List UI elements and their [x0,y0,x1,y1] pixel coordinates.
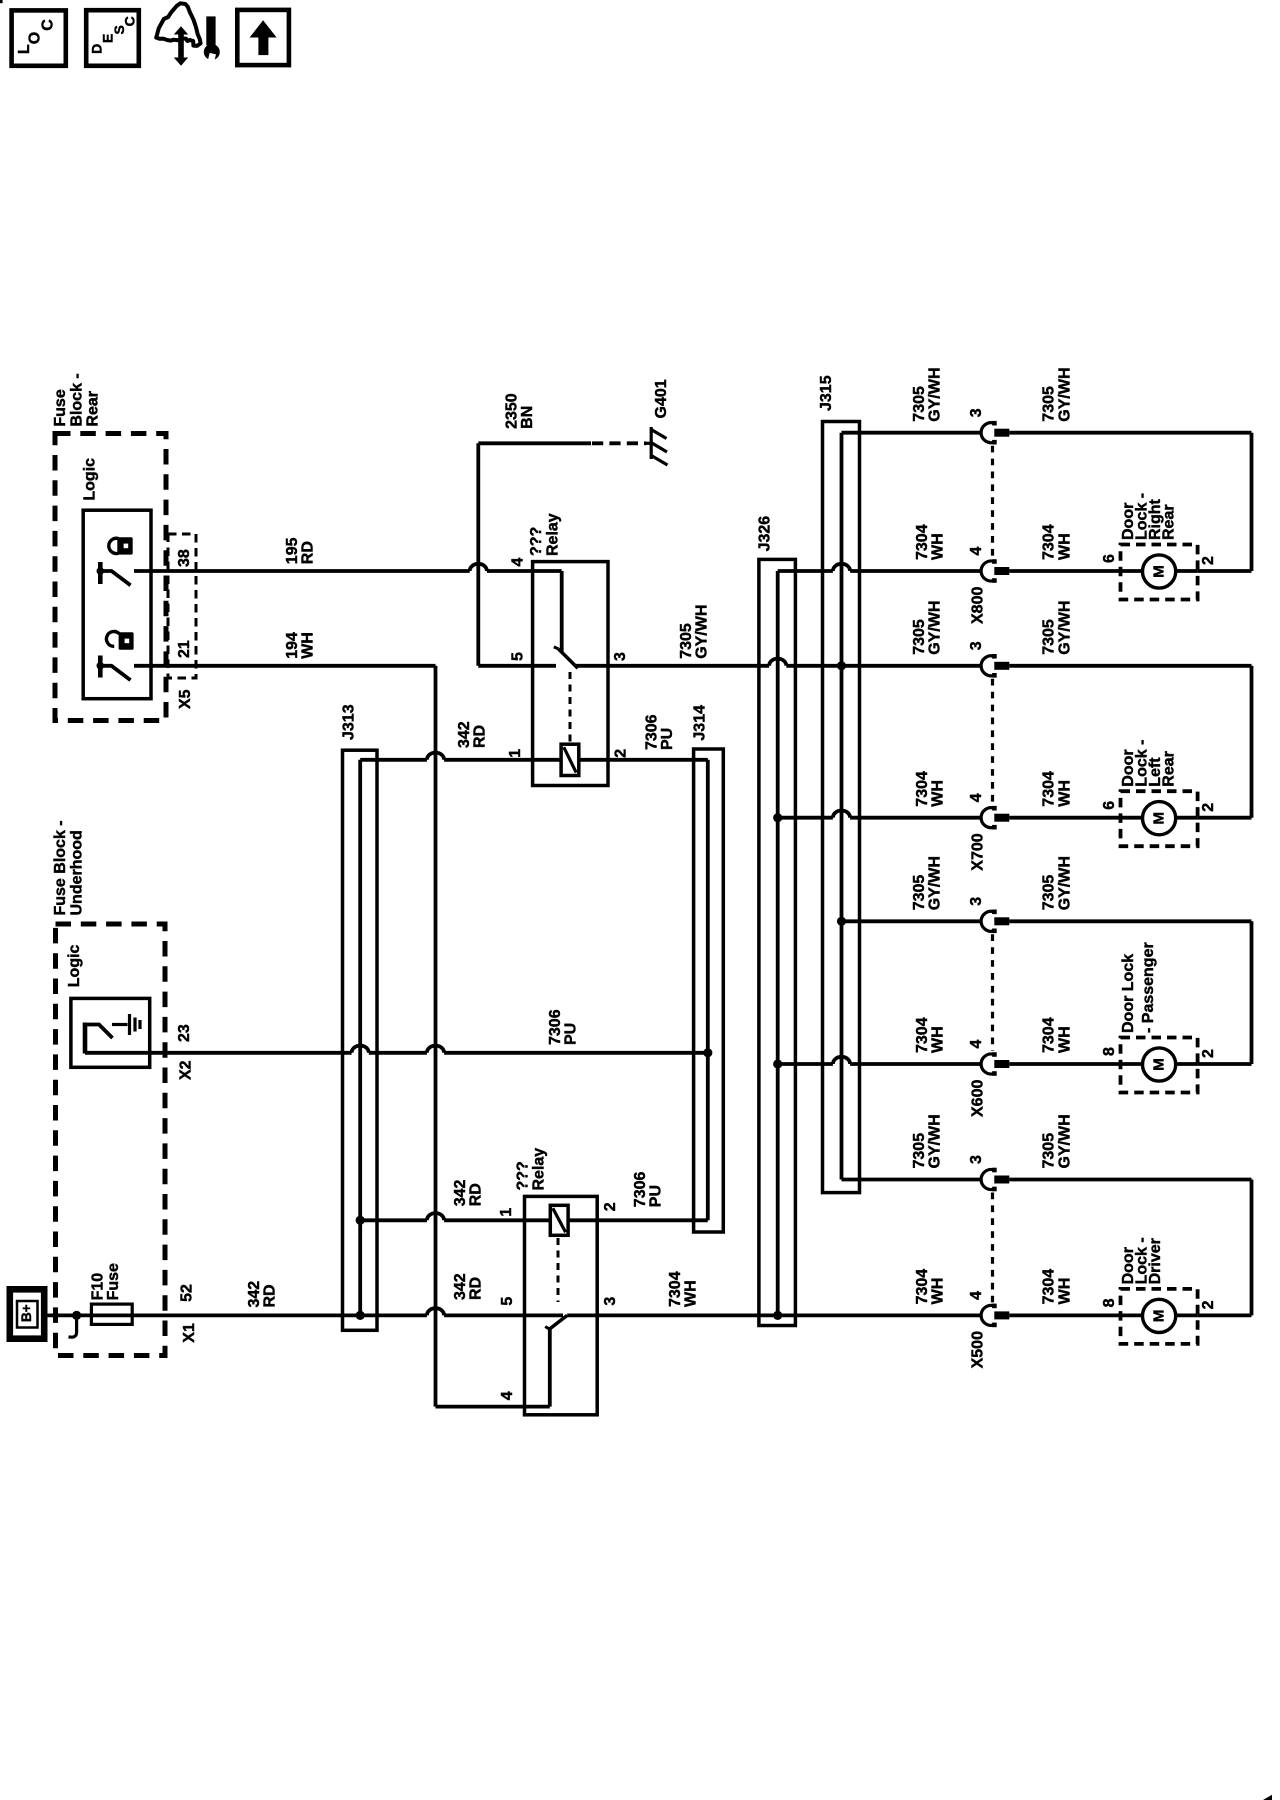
connector J314 [694,749,724,1232]
wire DV G from bus [842,1178,983,1182]
svg-text:PU: PU [563,1023,580,1045]
svg-text:GY/WH: GY/WH [1057,367,1074,421]
svg-text:X700: X700 [970,833,987,870]
svg-text:F10: F10 [90,1273,107,1301]
door lock motor X700 box [1121,791,1198,846]
svg-text:7304: 7304 [914,1017,931,1053]
svg-text:Relay: Relay [545,513,562,556]
wire PS G from bus [842,919,983,923]
svg-text:7304: 7304 [1041,524,1058,560]
wire PS W from bus [778,1062,833,1066]
svg-text:WH: WH [930,533,947,560]
svg-text:GY/WH: GY/WH [694,605,711,659]
unlock switch contact stub [134,664,151,668]
svg-text:RD: RD [261,1284,278,1307]
svg-text:Underhood: Underhood [69,830,86,915]
logic switch lever [85,1025,113,1039]
lock switch contact stub [134,569,151,573]
svg-text:7306: 7306 [632,1172,649,1208]
dot relay2 pin1 at bus [356,1216,365,1225]
svg-text:23: 23 [176,1024,193,1042]
svg-text:RD: RD [468,1183,485,1206]
svg-text:2: 2 [1200,1300,1217,1309]
svg-text:4: 4 [968,1291,985,1300]
B+ terminal box [10,1289,44,1338]
svg-text:1: 1 [498,1208,515,1217]
inline connector X700 pin4 [981,808,994,828]
svg-text:342: 342 [452,1273,469,1300]
svg-text:Driver: Driver [1147,1238,1164,1284]
svg-text:195: 195 [284,537,301,564]
fuse block rear dashed box [55,434,166,721]
inline connector X700 pin3 [981,656,994,676]
svg-text:WH: WH [930,1026,947,1053]
svg-text:342: 342 [452,1180,469,1207]
svg-text:7304: 7304 [914,1269,931,1305]
connector X500 dashed link [991,1193,994,1303]
svg-text:342: 342 [246,1281,263,1308]
wire 7305 GY/WH row X800 [1009,431,1251,435]
inline connector X500 pin3 [981,1169,994,1189]
svg-text:21: 21 [176,640,193,658]
door lock motor X600 M [1143,1048,1176,1081]
wire 7305 GY/WH row X600 [1009,919,1251,923]
svg-text:3: 3 [602,1297,619,1306]
svg-text:7305: 7305 [1041,875,1058,911]
svg-text:7304: 7304 [1041,1017,1058,1053]
svg-text:7305: 7305 [678,623,695,659]
dot 7306 PU junction [703,1048,712,1057]
svg-text:7304: 7304 [667,1271,684,1307]
svg-text:194: 194 [284,632,301,659]
svg-text:1: 1 [507,749,524,758]
svg-text:4: 4 [968,547,985,556]
door lock motor X700 M [1143,802,1176,835]
svg-text:GY/WH: GY/WH [926,1114,943,1168]
relay U2 coil [550,1205,568,1235]
relay U1 link dashed [569,672,572,744]
svg-text:3: 3 [968,641,985,650]
svg-text:Fuse: Fuse [52,389,69,426]
logic ground bars [128,1014,131,1035]
svg-text:2350: 2350 [504,393,521,429]
svg-text:WH: WH [1057,1026,1074,1053]
wire 7304 WH row X700 [1009,816,1120,820]
relay U1 pin1-pin2 wire [360,758,427,762]
svg-text:J315: J315 [818,375,835,411]
svg-text:C: C [122,16,138,26]
wire 7305 GY/WH row X700 [1009,664,1251,668]
svg-text:7305: 7305 [911,386,928,422]
svg-text:Rear: Rear [1161,751,1178,787]
svg-text:52: 52 [178,1284,195,1302]
inline connector X500 pin4 [981,1305,994,1325]
svg-text:Relay: Relay [531,1148,548,1191]
svg-text:3: 3 [968,408,985,417]
connector J326 [759,559,796,1325]
wire 342 RD fuse to relay2 [132,1314,360,1318]
svg-text:Rear: Rear [84,391,101,427]
svg-text:2: 2 [1200,556,1217,565]
svg-text:M: M [1151,1310,1168,1323]
relay U2 box [525,1196,598,1414]
svg-text:4: 4 [968,793,985,802]
svg-text:C: C [40,19,57,31]
svg-text:3: 3 [968,897,985,906]
svg-text:GY/WH: GY/WH [1057,856,1074,910]
door lock motor X800 wires [1121,569,1143,573]
svg-text:GY/WH: GY/WH [1057,1114,1074,1168]
logic box rear [83,510,151,699]
lock switch pivot [97,567,105,575]
relay U1 pin 5 wire [478,664,556,668]
svg-text:7305: 7305 [1041,619,1058,655]
wire 7304 WH row X800 [1009,569,1120,573]
svg-text:Fuse: Fuse [105,1263,122,1300]
svg-text:X500: X500 [970,1331,987,1368]
svg-text:7304: 7304 [914,524,931,560]
connector X600 dashed link [991,934,994,1051]
svg-text:D: D [89,44,105,54]
svg-text:Fuse Block -: Fuse Block - [52,820,69,915]
svg-text:M: M [1151,812,1168,825]
door lock motor X700 wires [1121,816,1143,820]
connector J315 [823,422,860,1193]
padlock open shackle [106,632,119,647]
svg-text:WH: WH [930,780,947,807]
unlock switch lever [100,666,130,680]
svg-text:GY/WH: GY/WH [926,856,943,910]
svg-text:38: 38 [176,549,193,567]
icon up-arrow box [237,10,289,65]
door lock motor X800 box [1121,545,1198,600]
wire 342 RD to relay2 pin1 [360,1218,427,1222]
wire LR G from relay1 pin3 [576,664,769,668]
svg-text:342: 342 [456,721,473,748]
lock switch T-bar [98,562,103,584]
svg-text:RD: RD [299,541,316,564]
svg-text:7305: 7305 [1041,1133,1058,1169]
wire RR G from bus [842,431,983,435]
svg-text:7305: 7305 [911,1133,928,1169]
svg-text:4: 4 [510,558,527,567]
svg-text:5: 5 [510,652,527,661]
page corner mark bottom right [1263,1795,1272,1800]
wire DV W from relay2 pin3 [567,1314,982,1318]
relay U2 link dashed [557,1238,560,1302]
svg-text:RD: RD [468,1277,485,1300]
svg-text:PU: PU [659,728,676,750]
svg-text:6: 6 [1101,801,1118,810]
svg-text:M: M [1151,565,1168,578]
door lock motor X600 wires [1121,1062,1143,1066]
wire 7305 GY/WH row X500 [1009,1178,1251,1182]
door lock motor X600 box [1121,1038,1198,1093]
page corner mark [0,0,3,3]
svg-text:WH: WH [300,632,317,659]
7306 PU bus [706,760,710,1221]
ground G401 [644,442,651,445]
svg-text:WH: WH [1057,1278,1074,1305]
svg-text:Block -: Block - [68,373,85,426]
svg-text:4: 4 [968,1040,985,1049]
padlock closed body [117,537,132,554]
svg-text:X1: X1 [181,1323,198,1343]
svg-text:7304: 7304 [1041,771,1058,807]
342 RD bus [358,760,362,1316]
icon up-arrow [250,20,277,37]
logic switch T-bar [83,1023,88,1054]
padlock open body [119,632,134,649]
svg-text:3: 3 [968,1155,985,1164]
wire X2-23 start [85,1051,352,1055]
inline connector X800 pin4 [981,561,994,581]
svg-text:- Passenger: - Passenger [1140,942,1157,1033]
inline connector X800 pin3 [981,423,994,443]
svg-text:6: 6 [1101,554,1118,563]
logic box underhood [71,998,150,1067]
svg-text:X2: X2 [177,1060,194,1080]
door lock motor X500 wires [1121,1314,1143,1318]
svg-text:G401: G401 [653,379,670,418]
relay U1 switch arm [558,649,577,668]
wire 195 RD [151,569,470,573]
svg-text:Logic: Logic [66,944,83,987]
svg-text:GY/WH: GY/WH [926,367,943,421]
door lock motor X500 box [1121,1289,1198,1344]
unlock switch T-bar [98,656,103,678]
svg-text:WH: WH [683,1280,700,1307]
svg-text:J326: J326 [756,516,773,552]
icon DESC box [86,10,139,66]
7304 WH bus [776,571,780,1315]
svg-text:5: 5 [499,1297,516,1306]
wire B+ to fuse [43,1314,91,1318]
wire 7304 WH row X500 [1009,1314,1120,1318]
svg-text:WH: WH [1057,533,1074,560]
wire 7304 WH row X600 [1009,1062,1120,1066]
door lock motor X500 M [1143,1299,1176,1332]
svg-text:B+: B+ [19,1304,34,1322]
svg-text:GY/WH: GY/WH [926,601,943,655]
svg-text:2: 2 [1200,1049,1217,1058]
svg-text:7304: 7304 [1041,1269,1058,1305]
icon wrench [206,16,215,45]
svg-text:L: L [16,44,33,54]
svg-text:2: 2 [613,749,630,758]
svg-text:7304: 7304 [914,771,931,807]
svg-text:GY/WH: GY/WH [1057,601,1074,655]
svg-text:X600: X600 [970,1080,987,1117]
svg-text:J314: J314 [692,705,709,741]
dot 342 RD at J313 bus [356,1311,365,1320]
svg-text:7306: 7306 [644,714,661,750]
wire 2350 BN [476,443,480,666]
relay U1 pin4 internal wire [560,571,564,652]
svg-text:4: 4 [499,1391,516,1400]
connector J313 [343,750,378,1330]
svg-text:WH: WH [1057,780,1074,807]
svg-text:WH: WH [930,1278,947,1305]
relay U1 box [533,562,608,786]
svg-text:???: ??? [528,527,545,556]
svg-text:8: 8 [1101,1047,1118,1056]
svg-text:Rear: Rear [1161,504,1178,540]
connector X800 dashed link [991,446,994,558]
connector X700 dashed link [991,679,994,805]
svg-text:8: 8 [1101,1298,1118,1307]
fuse F10 [91,1314,132,1318]
battery stub hook [75,1315,78,1333]
icon up-down arrow [174,26,188,34]
svg-text:X800: X800 [970,587,987,624]
svg-text:J313: J313 [341,704,358,740]
svg-text:3: 3 [612,652,629,661]
inline connector X600 pin4 [981,1054,994,1074]
wire RR W from bus [778,569,833,573]
svg-text:2: 2 [1200,803,1217,812]
wire 194 WH [151,664,436,668]
padlock closed shackle [109,538,119,553]
svg-text:2: 2 [602,1202,619,1211]
unlock switch pivot [97,662,105,670]
svg-text:O: O [26,32,43,44]
inline connector X600 pin3 [981,911,994,931]
fuse block underhood dashed box [56,924,166,1356]
svg-text:BN: BN [519,406,536,429]
svg-text:Logic: Logic [81,458,98,501]
svg-text:7305: 7305 [911,619,928,655]
7305 GY/WH bus [840,433,844,1180]
svg-text:???: ??? [515,1161,532,1190]
icon LOC box [12,10,66,65]
lock switch lever [100,571,130,585]
svg-text:7305: 7305 [1041,386,1058,422]
icon vehicle outline [156,3,200,46]
svg-text:X5: X5 [177,689,194,709]
connector X5 dashed box [168,534,196,678]
wire LR W from bus [778,816,833,820]
relay U1 coil [561,744,579,775]
svg-text:7305: 7305 [911,875,928,911]
svg-text:RD: RD [471,725,488,748]
svg-text:Door Lock: Door Lock [1120,954,1137,1033]
logic ground stem [112,1023,128,1026]
splice dot [72,1311,81,1320]
svg-text:M: M [1151,1058,1168,1071]
door lock motor X800 M [1143,555,1176,588]
svg-text:PU: PU [648,1185,665,1207]
relay U2 switch arm [549,1315,567,1329]
svg-text:7306: 7306 [547,1009,564,1045]
